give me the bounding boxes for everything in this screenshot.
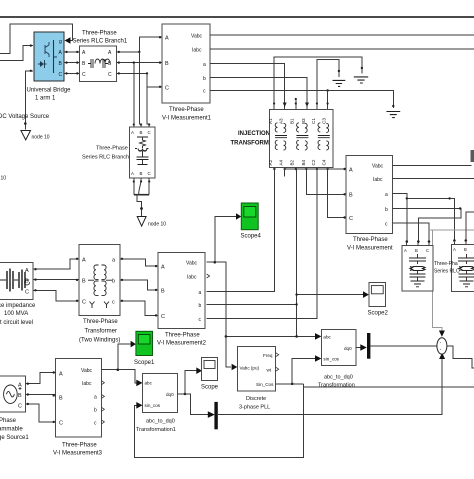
bottom port dots of T2 [273,168,275,170]
wire Meas1 b to injection transformer port B3 riser [210,78,307,110]
wire Meas3 Vabc bus with Scope1 branch and drop into abc [101,370,136,383]
port chevron Meas3 c [101,420,104,424]
wire thick top bus [0,16,474,18]
svg-text:Vabc: Vabc [81,368,93,374]
three-phase V-I measurement2 body [158,252,205,328]
svg-text:B: B [59,396,63,402]
wire RLC1 c to Meas1 C (jog down) [117,73,163,86]
wire right-Meas c to left load C with gray branch [392,223,429,243]
svg-text:abc: abc [145,381,153,386]
wire stub port A4 bottom dangling [284,168,286,177]
port chevron PLL wt [276,367,279,371]
RLC load right internal icon [458,254,474,287]
three-phase V-I measurement (right) body [346,156,392,234]
svg-text:ammable: ammable [0,427,23,433]
inductor L icon inside vertical RLC [135,149,148,152]
capacitor C icon inside vertical RLC [137,151,149,165]
svg-text:B: B [140,171,143,176]
wire Meas1 c bus to ground3 with tap to port C3 [210,91,393,109]
svg-text:g: g [59,39,62,45]
IGBT arm line [54,40,58,73]
winding pair phase A inside T2 [275,123,287,150]
svg-text:V-I Measurement: V-I Measurement [347,246,393,252]
resistor R icon inside vertical RLC [137,137,148,148]
wire source impedance C to transformer2w C [33,290,79,301]
svg-text:dq0: dq0 [166,392,174,397]
winding coils icon inside transformer2w [88,265,112,295]
svg-text:B: B [82,279,86,285]
wire transformer2w a to Meas2 A [120,259,158,266]
wire source impedance B to transformer2w B [33,279,79,281]
svg-text:abc: abc [323,335,331,340]
port chevron PLL Freq [276,353,279,357]
wire T2 B2 riser down to Meas2 b / abc junction / Scope2 branch [296,168,298,337]
svg-text:a: a [199,290,202,296]
goto tag dark slab at right edge [471,150,474,162]
abc_to_dq0 transformation1 body [143,374,178,413]
svg-text:B: B [165,61,169,67]
svg-text:A: A [404,248,407,253]
svg-text:C: C [161,314,165,320]
wire source1 C to Meas3 C [26,404,56,422]
wire T2 A2 riser down to Meas2 a [207,168,275,292]
svg-text:C3: C3 [322,118,327,124]
ground G3 (right of injection transformer) [386,112,400,118]
svg-text:Vabc: Vabc [186,261,198,267]
svg-text:1 arm 1: 1 arm 1 [35,96,56,102]
svg-text:Three-Phase: Three-Phase [96,146,128,152]
wire DC- from bridge left bottom down to node [25,71,33,130]
svg-text:A: A [59,372,63,378]
wire PLL Sin_Cos out with branch up to sin_cos of right transformation [276,383,304,385]
svg-text:V-I Measurement3: V-I Measurement3 [53,451,103,457]
demux bar2 [367,333,370,359]
wire Meas1 a to injection transformer port A3 riser [210,64,285,110]
wire sin_cos horizontal branch to right edge [303,386,474,388]
svg-text:B: B [349,193,353,199]
svg-text:A1: A1 [268,118,273,124]
svg-text:abc_to_dq0: abc_to_dq0 [146,419,175,425]
wire transformer2w b to Meas2 B [120,280,158,290]
scope1 green block [136,331,153,355]
svg-text:abc_to_dq0: abc_to_dq0 [324,375,353,381]
wire dq0 right out to demux bar2 [356,347,361,349]
svg-text:C: C [82,300,86,306]
svg-text:sin_cos: sin_cos [323,357,339,362]
ground G2 [354,77,368,83]
svg-text:A: A [165,36,169,42]
three-phase series RLC load left body [402,246,433,291]
svg-text:Freq: Freq [263,353,273,358]
svg-text:C: C [426,248,429,253]
wire source1 B to Meas3 B [26,395,56,397]
svg-text:B: B [140,130,143,135]
svg-text:V-I Measurement1: V-I Measurement1 [162,116,212,122]
wire right-Meas b staircase to left load B [392,209,461,244]
wire source impedance A to transformer2w A [33,259,79,269]
svg-text:rt circuit level: rt circuit level [0,320,33,326]
three-phase V-I measurement3 body [56,359,102,438]
svg-text:C: C [82,72,86,78]
winding pair phase C inside T2 [318,123,330,150]
svg-text:DC Voltage Source: DC Voltage Source [0,114,50,120]
port dots top of injection transformer [273,102,275,104]
svg-text:b: b [112,279,115,285]
svg-text:Scope1: Scope1 [134,360,155,366]
scope2 block [369,283,386,307]
svg-text:Series RLC: Series RLC [434,269,460,275]
wire sum output staircase to right edge [447,346,474,368]
svg-text:B4: B4 [301,159,306,165]
sine + impedance icon inside source impedance [0,279,29,281]
wire bridge A to RLC1 A [64,51,80,53]
svg-text:C: C [25,290,29,296]
svg-text:b: b [94,408,97,414]
svg-text:A4: A4 [279,159,284,165]
svg-text:C: C [108,72,112,78]
svg-text:C: C [18,404,22,410]
svg-text:B1: B1 [290,118,295,124]
transistor Q1 glyph inside bridge [45,42,49,57]
RLC load left internal icon [409,254,426,287]
svg-text:B: B [18,393,22,399]
wire gray c branch to right edge [429,229,474,231]
wire transformer2w c to Meas2 C [120,301,158,316]
svg-text:C: C [59,72,63,78]
svg-text:Scope: Scope [201,385,219,391]
port chevron Meas3 a [101,394,104,398]
svg-text:Discrete: Discrete [246,396,266,402]
svg-text:Vabc: Vabc [372,164,384,170]
svg-text:sin_cos: sin_cos [145,403,161,408]
svg-text:Three-Phase: Three-Phase [83,319,118,325]
wire dq0 out to Scope and demux bar [178,394,208,415]
ground node 10 (left, under bridge) [21,131,31,140]
svg-text:C: C [349,216,353,222]
svg-text:A2: A2 [268,159,273,165]
svg-text:Series RLC Branch1: Series RLC Branch1 [73,39,128,45]
wire Scope2 feed from B2 riser [297,294,363,296]
svg-text:C1: C1 [311,118,316,124]
three-phase V-I measurement1 body [162,24,210,103]
svg-text:B: B [25,279,29,285]
wire tap C down to vertical RLC branch port3 [147,73,149,127]
three-phase series RLC branch1 body [80,46,117,82]
svg-text:C: C [59,421,63,427]
three-phase series RLC load right body (clipped) [451,245,474,292]
svg-text:c: c [112,300,115,306]
wire bridge C to RLC1 C [64,72,80,74]
svg-text:Iabc: Iabc [82,381,92,387]
injection transformer T2 body [269,110,333,168]
abc_to_dq0 transformation (right) body [321,330,356,366]
wire abc bus into right transformation abc port [226,335,315,337]
svg-text:Three-Phase: Three-Phase [62,443,97,449]
ground G1 [333,80,346,86]
wire T2 C4 down then right into right-Meas C [328,168,344,218]
wire T2 C2 riser down to Meas2 c [207,168,317,319]
wire Meas1 Iabc to right edge [210,48,474,50]
wire T2 B4 down then right into right-Meas B [306,168,344,195]
wire gray branch down to sum top [432,230,442,331]
wire injection transformer port B1 riser to ground G1 [317,60,339,110]
svg-text:wt: wt [267,368,272,373]
svg-text:-Phase: -Phase [0,418,17,424]
svg-text:B: B [464,247,467,252]
svg-text:A3: A3 [279,118,284,124]
svg-text:C4: C4 [322,159,327,165]
svg-text:a: a [203,62,206,68]
svg-text:a: a [385,192,388,198]
wire RLC1 b to Meas1 B straight [117,62,163,64]
wire RLC1 a to Meas1 A (jog up) [117,37,163,52]
svg-text:A: A [131,171,134,176]
svg-text:C: C [148,171,151,176]
wire gate loop into bridge g port [0,24,73,54]
svg-text:Three-Pha: Three-Pha [434,261,458,267]
svg-text:a: a [94,395,97,401]
svg-text:Three-Phase: Three-Phase [82,31,117,37]
svg-text:C: C [148,130,151,135]
sine source circle icon [4,385,18,403]
scope4 green block [241,203,258,230]
svg-text:Three-Phase: Three-Phase [165,333,200,339]
wire Meas1 Vabc to right edge [210,34,474,36]
svg-text:(Two Windings): (Two Windings) [79,338,120,344]
svg-text:INJECTION: INJECTION [238,131,270,137]
three-phase programmable voltage source1 body (clipped) [0,376,26,412]
svg-text:Iabc: Iabc [187,275,197,281]
wire bar2 to sum block [370,345,437,347]
svg-text:Universal Bridge: Universal Bridge [27,88,72,94]
Y Y grounding marks inside transformer2w [90,302,110,309]
svg-text:Sin_Cos: Sin_Cos [256,382,274,387]
svg-text:B2: B2 [290,159,295,165]
svg-text:Iabc: Iabc [373,177,383,183]
svg-text:A: A [82,258,86,264]
winding pair phase B inside T2 [296,123,308,150]
svg-text:Scope4: Scope4 [241,234,262,240]
wire right-Meas a to left load A with branch to right load A [392,194,407,244]
wire tap B down to vertical RLC branch port1 [133,63,135,127]
svg-text:Scope2: Scope2 [368,311,389,317]
wire right-Meas Vabc to goto tag [392,165,471,167]
svg-text:Vabc: Vabc [191,34,203,40]
svg-text:A: A [349,168,353,174]
svg-text:C: C [165,86,169,92]
svg-text:Transformation1: Transformation1 [136,427,176,433]
svg-text:A: A [25,268,29,274]
svg-text:node 10: node 10 [32,135,50,141]
svg-text:Iabc: Iabc [192,48,202,54]
svg-text:Transformation: Transformation [318,383,355,389]
wire injection transformer port A1 riser to ground G2 [274,57,362,110]
svg-text:A: A [131,130,134,135]
wire bridge B to RLC1 B [64,62,80,64]
wire source1 A to Meas3 A [26,373,56,384]
discrete 3-phase PLL body [237,347,275,392]
wire Meas2 Vabc to Scope4 branch and down to abc bus [207,262,231,367]
universal bridge U1 body [34,32,64,81]
svg-text:A: A [161,265,165,271]
svg-text:dq0: dq0 [344,346,352,351]
svg-text:ge Source1: ge Source1 [0,435,29,441]
wire DC+ into bridge left top [0,46,33,61]
wire branch up to Scope1 [118,344,131,370]
demux bar (selector) [214,402,217,429]
ground node 10 (below vertical RLC) [137,217,146,227]
svg-text:Series RLC Branch: Series RLC Branch [82,155,129,161]
svg-text:b: b [199,303,202,309]
wire sin_cos return into transformation1 [135,384,304,458]
wire demux output to sum bottom [218,359,442,415]
source impedance block body (clipped at left) [0,262,33,299]
wire T2 A4 bus right into right-Meas A [285,168,344,170]
wire stub port B1b top [295,98,297,110]
svg-text:b: b [385,207,388,213]
wire into PLL Vabc input [232,364,238,371]
svg-text:node 10: node 10 [0,176,6,182]
sum block (+-) [437,338,447,354]
three-phase transformer (two windings) body [79,244,120,315]
svg-text:C2: C2 [311,159,316,165]
svg-text:Vabc (pu): Vabc (pu) [240,366,260,371]
svg-text:Three-Phase: Three-Phase [169,107,204,113]
svg-text:3-phase PLL: 3-phase PLL [239,405,270,411]
scope block [202,358,218,381]
svg-text:b: b [203,76,206,82]
svg-text:Transformer: Transformer [85,329,117,335]
svg-text:V-I Measurement2: V-I Measurement2 [157,341,207,347]
wire branch up to Scope [185,371,197,394]
wire right-Meas Iabc to right edge [392,178,474,180]
svg-text:100 MVA: 100 MVA [4,311,28,317]
wire tap c down to injection transformer port C1 [327,91,329,110]
wire from right edge down to right load B [466,212,474,240]
svg-text:B: B [161,289,165,295]
vertical three-phase series RLC branch body [130,127,155,178]
port chevron Meas3 Iabc [101,381,104,385]
port chevron Meas3 b [101,407,104,411]
svg-text:A: A [453,247,456,252]
svg-text:ce impedance: ce impedance [0,303,36,309]
wire tap A down to vertical RLC branch port2 [139,52,141,127]
port chevron Meas2 Iabc [207,274,210,278]
inductor L1 icon inside RLC1 [88,59,110,68]
diode D1 glyph inside bridge [40,61,44,67]
wire merge below vertical RLC to node ground [134,178,149,195]
svg-text:B: B [415,248,418,253]
svg-text:Three-Phase: Three-Phase [353,237,388,243]
svg-text:node 10: node 10 [148,222,166,228]
svg-text:A: A [18,383,22,389]
wire branch up to Scope4 [215,217,236,263]
